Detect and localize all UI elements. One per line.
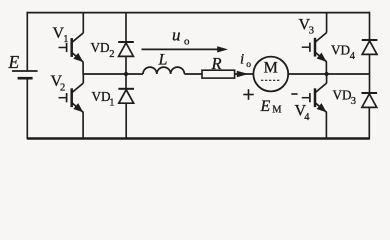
wire VD2 cathode lead: [125, 13, 127, 43]
wire bottom rail: [27, 137, 369, 139]
inductor L: [143, 67, 184, 74]
svg-text:L: L: [158, 51, 168, 68]
wire V4 emitter lead: [325, 112, 327, 138]
svg-text:E: E: [260, 98, 271, 115]
wire V2 collector lead: [82, 74, 84, 83]
wire V3 emitter lead: [325, 62, 327, 74]
label VD1: [92, 89, 115, 109]
svg-text:R: R: [211, 54, 222, 73]
label V1: [53, 25, 69, 45]
wire VD4 cathode lead: [369, 12, 371, 40]
wire VD3 cathode lead: [369, 74, 371, 93]
svg-text:3: 3: [351, 96, 356, 107]
wire load line left: [83, 73, 143, 75]
svg-text:VD: VD: [333, 88, 352, 103]
transistor V1: [58, 33, 83, 62]
svg-text:2: 2: [109, 49, 114, 60]
wire V1 emitter lead: [82, 62, 84, 74]
label i_o: [240, 51, 251, 70]
label VD4: [331, 43, 356, 62]
svg-text:VD: VD: [91, 40, 110, 55]
node left diode junction: [124, 72, 128, 76]
arrow u_o: [142, 46, 229, 52]
wire left rail lower: [26, 78, 28, 139]
wire V4 collector lead: [326, 74, 328, 83]
transistor V2: [58, 83, 83, 112]
wire motor to right bridge: [288, 73, 369, 75]
wire resistor to motor with arrow i_o: [235, 71, 254, 77]
node right bridge midpoint: [325, 72, 329, 76]
diode VD3: [362, 93, 378, 107]
transistor V4: [302, 83, 327, 112]
battery E: [12, 71, 38, 78]
label VD2: [91, 40, 115, 60]
svg-text:u: u: [172, 26, 181, 45]
label plus: [243, 89, 254, 100]
wire VD3 anode lead: [368, 107, 370, 139]
wire V1 collector lead: [82, 13, 84, 34]
svg-text:1: 1: [109, 97, 114, 108]
wire VD1 anode lead: [125, 103, 127, 138]
wire top rail: [27, 12, 369, 14]
wire inductor to resistor: [184, 73, 202, 75]
svg-text:o: o: [184, 36, 190, 48]
label VD3: [333, 88, 357, 107]
wire VD2 anode lead: [125, 56, 127, 74]
wire left rail upper: [26, 12, 28, 71]
label u_o: [172, 26, 190, 48]
svg-text:3: 3: [309, 26, 314, 37]
wire VD4 anode lead: [369, 54, 371, 74]
label EM: [260, 98, 283, 116]
diode VD2: [118, 42, 134, 56]
svg-text:1: 1: [63, 34, 68, 45]
diode VD4: [362, 40, 378, 54]
label V4: [295, 103, 311, 124]
label V2: [51, 73, 66, 94]
svg-text:i: i: [240, 51, 244, 67]
svg-text:VD: VD: [92, 89, 111, 104]
svg-text:2: 2: [60, 83, 65, 94]
svg-text:4: 4: [350, 51, 356, 62]
label minus: [291, 93, 297, 95]
svg-text:o: o: [246, 60, 251, 70]
wire VD1 cathode lead: [125, 74, 127, 89]
svg-text:4: 4: [304, 112, 310, 123]
svg-text:E: E: [8, 52, 20, 72]
svg-text:M: M: [264, 60, 278, 77]
svg-text:M: M: [272, 105, 282, 116]
wire V2 emitter lead: [82, 112, 84, 138]
resistor R: [202, 70, 235, 78]
diode VD1: [118, 89, 134, 103]
wire V3 collector lead: [326, 13, 328, 33]
svg-text:VD: VD: [331, 43, 350, 58]
motor M: [253, 57, 288, 92]
transistor V3: [302, 33, 327, 62]
label V3: [299, 17, 315, 37]
